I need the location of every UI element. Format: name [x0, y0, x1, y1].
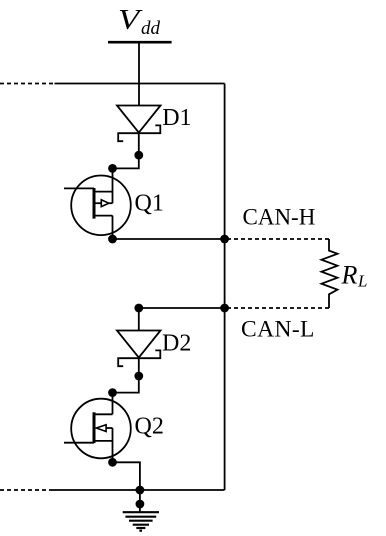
svg-text:V: V: [118, 3, 143, 36]
transistor Q1 drain vertical: [112, 216, 114, 239]
transistor Q1 source vertical: [112, 168, 114, 203]
wire D2 cathode to Q2 drain: [113, 358, 139, 392]
wire Q2 source to ground bus: [113, 462, 140, 490]
transistor Q1 source tab: [96, 191, 113, 193]
transistor Q1 drain tab: [96, 215, 113, 217]
svg-text:L: L: [357, 272, 367, 291]
junction dot F: [220, 304, 229, 313]
junction dot H: [108, 388, 117, 397]
wire D1 cathode to Q1 drain: [113, 133, 139, 168]
junction dot I: [108, 458, 117, 467]
transistor Q1 bulk arrow: [101, 200, 109, 207]
transistor Q1 bulk arrow wire: [109, 202, 113, 204]
transistor Q1 circle: [71, 176, 131, 236]
junction dot A: [134, 151, 143, 160]
wire ground stem: [139, 490, 141, 512]
diode D2 schottky cathode bar: [118, 350, 160, 366]
wire CAN-L: [139, 307, 225, 309]
transistor Q2 drain vertical: [112, 393, 114, 415]
junction dot K: [136, 500, 145, 509]
svg-text:R: R: [341, 260, 358, 289]
transistor Q2 gate lead: [64, 442, 94, 444]
svg-text:CAN-L: CAN-L: [241, 316, 315, 342]
diode D2 triangle: [117, 331, 161, 358]
junction dot E: [134, 304, 143, 313]
transistor Q1 gate bar: [93, 188, 96, 219]
transistor Q2 bulk arrow wire: [106, 427, 112, 429]
label RL: [341, 260, 368, 290]
svg-text:Q1: Q1: [135, 190, 164, 216]
junction dot D: [220, 235, 229, 244]
svg-text:Q2: Q2: [135, 413, 164, 439]
svg-text:D2: D2: [162, 330, 191, 356]
power rail Vdd bar: [108, 41, 172, 44]
wire top bus dashed segment: [0, 83, 55, 85]
diode D1 schottky cathode bar: [118, 125, 160, 141]
svg-text:dd: dd: [141, 18, 161, 39]
junction dot J: [136, 486, 145, 495]
wire D2 anode stem: [138, 308, 140, 331]
transistor Q1 bulk lead: [96, 202, 102, 204]
wire bottom bus solid segment: [51, 489, 225, 491]
transistor Q1 gate lead: [64, 187, 94, 189]
wire top bus solid segment: [55, 83, 225, 85]
wire right rail: [224, 84, 226, 491]
ground: [123, 512, 159, 531]
wire Vdd stem: [138, 42, 140, 105]
junction dot G: [134, 372, 143, 381]
node Vdd label: [118, 3, 161, 39]
svg-text:D1: D1: [162, 105, 191, 131]
transistor Q2 circle: [71, 399, 131, 459]
diode D1 triangle: [117, 106, 161, 133]
wire CAN-H: [113, 238, 225, 240]
junction dot B: [108, 164, 117, 173]
resistor RL: [322, 239, 338, 308]
svg-text:CAN-H: CAN-H: [243, 205, 316, 230]
junction dot C: [108, 235, 117, 244]
transistor Q2 gate bar: [93, 412, 96, 443]
transistor Q2 source tab: [96, 440, 113, 442]
transistor Q2 source vertical: [112, 428, 114, 462]
wire bottom bus dashed segment: [0, 489, 51, 491]
transistor Q2 bulk arrow: [96, 425, 106, 432]
wire CAN-H dashed stub to RL: [225, 238, 329, 240]
wire CAN-L dashed stub from RL: [225, 307, 329, 309]
transistor Q2 drain tab: [96, 413, 113, 415]
